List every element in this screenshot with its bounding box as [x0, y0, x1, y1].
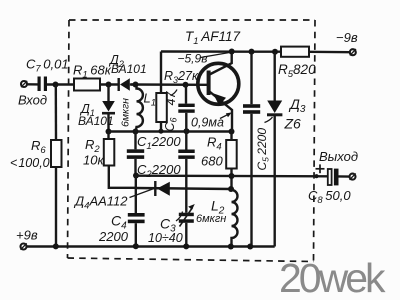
node output-wire start — [133, 173, 139, 179]
pointer C6 tick — [171, 90, 178, 96]
capacitor C1 — [127, 132, 144, 176]
node L2 rail — [228, 244, 234, 250]
inductor L1 — [136, 87, 143, 132]
capacitor C4 — [128, 213, 145, 223]
diode D4 — [155, 181, 170, 196]
svg-text:10к: 10к — [83, 153, 104, 168]
node C5 top — [249, 49, 255, 55]
svg-text:C22200: C22200 — [137, 162, 181, 180]
wire R5 to -9v terminal — [309, 51, 350, 54]
pointer 0,9ma arrow — [220, 112, 232, 118]
node D1/R2 junction — [106, 129, 112, 135]
svg-text:ВА101: ВА101 — [78, 114, 114, 128]
diode D1 — [102, 101, 115, 132]
node C4 rail — [133, 243, 139, 249]
dashed enclosure top — [69, 19, 315, 21]
node at dashed border — [314, 174, 318, 178]
wire C1 junction down — [135, 176, 137, 214]
node C5 rail — [247, 244, 253, 250]
wire input to C7 — [27, 83, 39, 85]
node D2/L1 junction — [133, 82, 139, 88]
svg-text:−9в: −9в — [336, 30, 358, 45]
node collector — [229, 49, 235, 55]
node R6 rail — [53, 243, 59, 249]
pointer C5 tick — [265, 117, 273, 123]
diode D3 — [267, 101, 282, 115]
svg-text:C7 0,01: C7 0,01 — [26, 57, 69, 75]
svg-text:L1: L1 — [144, 91, 157, 109]
capacitor C7 — [38, 77, 48, 92]
node C6 top junction — [183, 82, 189, 88]
capacitor C2 — [178, 150, 194, 159]
node emitter junction — [229, 129, 235, 135]
top rail — [161, 50, 281, 53]
resistor R5 — [281, 47, 309, 57]
svg-text:ВА101: ВА101 — [111, 62, 147, 76]
wire D1 branch — [107, 85, 109, 102]
svg-text:20wek: 20wek — [279, 255, 386, 300]
pointer AA112 — [130, 189, 155, 198]
inductor L2 — [232, 190, 238, 247]
diode D4 wire — [136, 188, 231, 189]
output wire — [136, 174, 328, 177]
svg-text:C8 50,0: C8 50,0 — [308, 188, 351, 206]
wire C5 to rail — [250, 114, 252, 247]
capacitor C6 — [178, 104, 194, 113]
wire C2 down through D4 wire — [185, 159, 187, 213]
dashed enclosure left — [68, 20, 70, 258]
svg-text:10÷40: 10÷40 — [148, 231, 183, 245]
resistor R3 — [156, 93, 167, 122]
transistor collector lead — [210, 52, 232, 75]
svg-text:47: 47 — [164, 91, 178, 106]
node D3 top — [272, 49, 278, 55]
wire R2 down and right to D4 wire — [109, 166, 136, 188]
wire junction to R6 — [55, 85, 58, 141]
wire R1 to D2 — [100, 83, 118, 85]
dashed enclosure right — [314, 20, 316, 262]
wire emitter node down to C2 — [185, 132, 187, 150]
diode D3 lead — [274, 52, 276, 101]
wire R3 bottom — [160, 122, 162, 132]
svg-text:C5 2200: C5 2200 — [255, 128, 271, 171]
capacitor C3 variable — [179, 204, 195, 247]
svg-text:0,9ма: 0,9ма — [191, 116, 224, 130]
node C3 rail — [183, 243, 189, 249]
wire C6 to emitter wire — [185, 113, 187, 132]
transistor base bar — [207, 71, 211, 96]
wire D3 to rail — [274, 115, 276, 247]
wire emitter to R4 — [230, 132, 232, 141]
svg-text:2200: 2200 — [98, 229, 129, 244]
wire R4 to output node — [230, 169, 232, 191]
-9v terminal — [350, 49, 356, 55]
svg-text:Д3: Д3 — [288, 96, 306, 115]
emitter bias wire — [109, 130, 232, 132]
wire C4 to rail — [135, 223, 137, 246]
resistor R3 top lead from rail — [160, 52, 162, 94]
emitter arrow — [213, 93, 226, 106]
pointer C3 tick — [176, 212, 183, 222]
resistor R2 — [104, 139, 115, 166]
node R4/L2 output junction — [229, 173, 235, 179]
transistor emitter lead — [210, 92, 233, 132]
capacitor C6 top lead — [185, 85, 187, 104]
input terminal — [21, 81, 27, 87]
capacitor C5 — [243, 104, 260, 114]
capacitor C8 electrolytic — [328, 169, 339, 186]
svg-text:6мкгн: 6мкгн — [120, 98, 132, 127]
diode D2 — [119, 78, 136, 91]
svg-text:Z6: Z6 — [284, 116, 302, 132]
wire R6 to +9v rail — [55, 167, 57, 247]
node R3 bottom — [159, 129, 164, 134]
svg-text:R327к: R327к — [164, 69, 199, 85]
plus sign — [316, 164, 325, 173]
wire C8 to output terminal — [339, 175, 350, 178]
svg-text:6мкгн: 6мкгн — [196, 213, 226, 225]
node L1 bottom — [133, 129, 139, 135]
svg-text:< 100,0: < 100,0 — [10, 156, 50, 170]
svg-text:Д4АА112: Д4АА112 — [73, 194, 128, 212]
svg-text:R6: R6 — [31, 138, 46, 156]
wire to R2 — [107, 132, 109, 140]
node D4/L2 junction — [228, 186, 234, 192]
svg-text:R4: R4 — [207, 135, 222, 153]
svg-text:T1 AF117: T1 AF117 — [185, 29, 241, 47]
output terminal — [350, 174, 356, 180]
svg-text:680: 680 — [201, 154, 223, 169]
base wire to transistor — [131, 83, 208, 86]
capacitor C5 lead — [250, 52, 252, 105]
svg-text:R5820: R5820 — [278, 62, 316, 80]
svg-text:Выход: Выход — [319, 149, 358, 164]
resistor R6 — [51, 140, 62, 167]
pointer -5,9v — [201, 53, 230, 58]
dashed enclosure bottom — [68, 258, 314, 262]
node C6 bottom — [184, 128, 190, 134]
svg-text:Вход: Вход — [18, 93, 47, 108]
+9v terminal — [21, 244, 27, 250]
resistor R4 — [226, 140, 237, 169]
svg-text:+9в: +9в — [16, 228, 38, 243]
svg-text:−5,9в: −5,9в — [178, 52, 208, 66]
+9v rail — [27, 245, 275, 247]
node input/R6 junction — [53, 82, 59, 88]
transistor T1 circle — [198, 63, 239, 104]
resistor R1 — [74, 79, 100, 91]
wire C7 to R1 — [47, 83, 74, 85]
node D1 junction — [106, 82, 112, 88]
svg-text:C6: C6 — [163, 117, 179, 131]
